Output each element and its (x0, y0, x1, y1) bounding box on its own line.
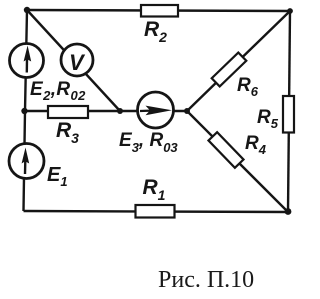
wire middle branch (24, 110, 187, 112)
svg-text:E2,R02: E2,R02 (30, 79, 86, 103)
label R4 (245, 133, 267, 157)
node top-right (287, 8, 293, 14)
svg-text:R5: R5 (257, 107, 279, 131)
resistor R1 (136, 205, 175, 218)
wire bottom side (24, 211, 289, 212)
node bottom-right (285, 208, 292, 215)
svg-text:R3: R3 (56, 119, 79, 146)
svg-text:E3, R03: E3, R03 (119, 130, 178, 155)
svg-text:R1: R1 (143, 176, 166, 203)
resistor R2 (141, 5, 178, 17)
label R5 (257, 107, 279, 131)
source E3 circle (138, 92, 174, 128)
node voltmeter junction (117, 108, 123, 114)
wire R6 branch (187, 11, 290, 111)
voltmeter V letter (69, 50, 86, 75)
label R1 (143, 176, 166, 203)
source E1 arrow (22, 148, 30, 175)
label R3 (56, 119, 79, 146)
source E2 circle (10, 44, 44, 78)
source E1 circle (9, 144, 44, 179)
source E3 arrow (140, 106, 172, 116)
source E2 arrow (24, 46, 32, 73)
label R2 (144, 18, 167, 45)
wire top side (27, 10, 290, 11)
label E3,R03 (119, 130, 178, 155)
svg-text:Рис. П.10: Рис. П.10 (158, 267, 254, 293)
resistor R5 (283, 96, 294, 133)
svg-text:E1: E1 (47, 164, 68, 189)
node E3 junction (184, 108, 190, 114)
node top-left (24, 7, 30, 13)
svg-text:R2: R2 (144, 18, 167, 45)
svg-text:R6: R6 (237, 75, 259, 99)
resistor R3 (48, 106, 88, 118)
wire R4 branch (187, 111, 288, 212)
wire right side (288, 11, 290, 212)
caption Рис. П.10 (158, 267, 254, 293)
resistor R6 (212, 53, 247, 87)
svg-text:R4: R4 (245, 133, 267, 157)
wire voltmeter branch (27, 10, 120, 111)
voltmeter V circle (61, 44, 93, 76)
label R6 (237, 75, 259, 99)
svg-text:V: V (69, 50, 86, 75)
label E1 (47, 164, 68, 189)
resistor R4 (208, 132, 243, 168)
wire left side (24, 10, 28, 211)
label E2,R02 (30, 79, 86, 103)
node mid-left (21, 108, 27, 114)
